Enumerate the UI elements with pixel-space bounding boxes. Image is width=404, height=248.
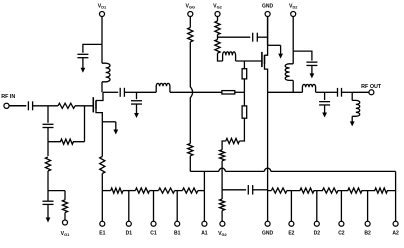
- label A2: [392, 231, 399, 237]
- resistor R19: [182, 188, 198, 193]
- wire (gate lead): [236, 60, 262, 62]
- wire: [217, 35, 219, 40]
- terminal VGG: [188, 12, 193, 17]
- resistor R3: [45, 157, 50, 171]
- wire: [316, 91, 325, 93]
- wire: [342, 91, 353, 93]
- wire (source to gnd arrow): [102, 121, 116, 123]
- svg-text:GND: GND: [262, 4, 274, 10]
- resistor R21: [291, 188, 316, 193]
- wire (C1 pad): [153, 191, 155, 222]
- terminal VD2: [291, 12, 296, 17]
- wire: [150, 190, 159, 192]
- terminal E1: [100, 221, 105, 226]
- terminal B2: [365, 221, 370, 226]
- capacitor C8 (VG2-GND top): [253, 33, 258, 42]
- wire: [235, 91, 245, 93]
- resistor R8 (box): [242, 106, 247, 118]
- capacitor C5 (interstage coupling): [103, 88, 124, 97]
- wire: [221, 161, 223, 190]
- wire: [218, 53, 223, 61]
- wire: [175, 190, 183, 192]
- wire: [325, 91, 338, 93]
- resistor R6 (box): [222, 91, 235, 94]
- wire: [47, 171, 49, 191]
- resistor R16: [111, 188, 123, 193]
- capacitor C6 (shunt): [131, 92, 142, 104]
- resistor R12: [188, 28, 193, 43]
- node input (x48): [47, 106, 49, 123]
- wire (B2 pad): [367, 191, 369, 222]
- wire (bias rail): [271, 170, 396, 172]
- terminal A2: [393, 221, 398, 226]
- label A1: [201, 231, 208, 237]
- wire: [101, 174, 103, 191]
- wire: [47, 142, 49, 156]
- wire: [83, 44, 102, 52]
- wire: [9, 105, 26, 107]
- label C1: [150, 231, 157, 237]
- wire (B1 pad): [176, 191, 178, 222]
- wire (E2 pad): [290, 191, 292, 222]
- resistor R5 (E1): [100, 157, 105, 174]
- terminal E2: [289, 221, 294, 226]
- wire (cap branch): [218, 36, 251, 38]
- wire: [267, 16, 269, 45]
- terminal RF OUT: [369, 90, 374, 95]
- svg-text:VD1: VD1: [98, 4, 107, 10]
- svg-text:E1: E1: [99, 231, 105, 237]
- svg-text:B1: B1: [174, 231, 181, 237]
- label GND top: [262, 4, 274, 10]
- svg-text:VGG: VGG: [186, 4, 196, 10]
- ground arrow (L6): [350, 116, 355, 126]
- transistor Q2 channel: [264, 55, 266, 64]
- svg-text:VG1: VG1: [61, 231, 70, 237]
- transistor Q1 gate bar: [92, 97, 94, 112]
- capacitor C10 (output shunt): [319, 92, 330, 105]
- ground arrow (C6): [134, 104, 139, 118]
- svg-text:VG2: VG2: [218, 231, 227, 237]
- wire: [170, 91, 222, 93]
- wire (cap bus): [222, 189, 246, 191]
- wire: [33, 105, 58, 107]
- label VD2: [289, 4, 298, 10]
- svg-text:C2: C2: [338, 231, 345, 237]
- wire (source down): [267, 92, 269, 190]
- terminal GND (pad): [265, 221, 270, 226]
- resistor R24: [368, 188, 396, 193]
- resistor R10: [220, 150, 225, 161]
- wire (C2 pad): [340, 191, 342, 222]
- wire (D2 pad): [316, 191, 318, 222]
- wire (A2 line): [395, 171, 397, 221]
- wire: [48, 190, 65, 192]
- resistor R23: [341, 188, 367, 193]
- ground arrow (C9): [310, 66, 315, 79]
- wire (bias rail): [190, 170, 219, 172]
- terminal D2: [314, 221, 319, 226]
- resistor R22: [317, 188, 342, 193]
- terminal GND (top): [265, 12, 270, 17]
- wire: [84, 106, 86, 142]
- wire: [47, 128, 49, 142]
- transistor Q1 channel: [95, 100, 97, 109]
- wire: [137, 91, 157, 93]
- terminal RF IN: [4, 103, 9, 108]
- wire: [198, 190, 205, 192]
- wire (bypass branch): [293, 51, 312, 61]
- capacitor C9 (VD2 bypass): [306, 62, 317, 65]
- inductor L5 (output): [302, 84, 315, 92]
- capacitor C1 (input coupling): [28, 101, 32, 110]
- terminal VG2 (top): [215, 12, 220, 17]
- resistor R14: [215, 21, 220, 35]
- wire: [253, 189, 268, 191]
- svg-text:A2: A2: [392, 231, 399, 237]
- wire (bias rail): [225, 170, 264, 172]
- label VD1: [98, 4, 107, 10]
- label B1: [174, 231, 181, 237]
- svg-text:VD2: VD2: [289, 4, 298, 10]
- wire: [268, 91, 303, 93]
- capacitor C11 (output coupling): [338, 88, 342, 97]
- label VGG: [186, 4, 196, 10]
- wire (drain to arrow): [268, 44, 281, 46]
- svg-text:E2: E2: [288, 231, 294, 237]
- resistor R2 (feedback RC): [48, 139, 85, 144]
- label VG2 pad: [218, 231, 227, 237]
- label RF OUT: [361, 84, 382, 90]
- capacitor C3 (VG1 bypass): [43, 191, 54, 205]
- terminal C2: [339, 221, 344, 226]
- label VG2 top: [213, 4, 222, 10]
- inductor L2 (interstage): [156, 83, 170, 92]
- ground arrow (C10): [322, 105, 327, 118]
- resistor R13: [188, 144, 193, 156]
- wire (GND pad): [267, 190, 269, 222]
- svg-text:B2: B2: [364, 231, 371, 237]
- inductor L1 (drain choke): [102, 44, 110, 92]
- wire: [189, 156, 191, 172]
- wire: [243, 79, 245, 106]
- label E1: [99, 231, 105, 237]
- wire: [101, 16, 103, 44]
- ground arrow (C4): [81, 58, 86, 73]
- resistor R9: [226, 138, 240, 143]
- wire hop (over GND line): [264, 168, 270, 171]
- label B2: [364, 231, 371, 237]
- terminal A1: [202, 221, 207, 226]
- resistor R15: [215, 40, 220, 54]
- wire: [124, 91, 136, 93]
- wire: [292, 16, 294, 51]
- resistor R1 (series input): [58, 103, 75, 108]
- svg-text:GND: GND: [262, 231, 274, 237]
- svg-text:D1: D1: [126, 231, 133, 237]
- wire: [257, 36, 267, 38]
- label D2: [314, 231, 321, 237]
- resistor R18: [159, 188, 175, 193]
- terminal D1: [126, 221, 131, 226]
- wire (E1 pad): [101, 191, 103, 222]
- wire (A1 line): [203, 171, 205, 221]
- wire (bus E1-D1): [102, 190, 110, 192]
- wire (source down to E1 resistor): [101, 122, 103, 157]
- wire: [217, 16, 219, 21]
- wire: [287, 190, 292, 192]
- label D1: [126, 231, 133, 237]
- resistor R11 (VG2 feed): [220, 199, 225, 221]
- label GND pad: [262, 231, 274, 237]
- terminal VG1: [63, 220, 68, 225]
- transistor Q1 drain lead: [96, 92, 103, 100]
- wire (VGG line with hop): [190, 42, 192, 144]
- capacitor C7 (VG2-GND): [248, 185, 252, 195]
- resistor R7 (box): [242, 69, 247, 79]
- svg-text:C1: C1: [150, 231, 157, 237]
- svg-text:RF OUT: RF OUT: [361, 84, 382, 90]
- wire: [222, 141, 226, 150]
- wire: [352, 91, 369, 93]
- terminal C1: [151, 221, 156, 226]
- terminal B1: [175, 221, 180, 226]
- label C2: [338, 231, 345, 237]
- resistor R4 (VG1 feed): [62, 191, 67, 221]
- svg-text:RF IN: RF IN: [1, 94, 15, 100]
- wire: [243, 61, 245, 69]
- wire (bus GND-E2): [268, 190, 272, 192]
- wire: [189, 16, 191, 27]
- ground arrow (C3): [46, 204, 51, 222]
- label RF IN: [1, 94, 15, 100]
- transistor Q1 source lead: [96, 109, 102, 122]
- label E2: [288, 231, 294, 237]
- wire: [75, 105, 93, 107]
- transistor Q2 gate bar: [261, 52, 263, 67]
- resistor R17: [135, 188, 149, 193]
- inductor L6 (shunt): [352, 92, 360, 116]
- svg-text:VG2: VG2: [213, 4, 222, 10]
- resistor R20: [271, 188, 287, 193]
- capacitor C2 (shunt RC): [43, 124, 54, 127]
- svg-text:A1: A1: [201, 231, 208, 237]
- wire: [123, 190, 135, 192]
- wire (D1 pad): [128, 191, 130, 222]
- inductor L3 (gate): [223, 52, 236, 61]
- svg-text:D2: D2: [314, 231, 321, 237]
- label VG1: [61, 231, 70, 237]
- inductor L4 (output choke): [285, 51, 293, 92]
- terminal VD1: [100, 12, 105, 17]
- ground arrow (Q1 source): [113, 122, 118, 135]
- terminal VG2 (pad): [220, 221, 225, 226]
- capacitor C4 (VD1 bypass): [77, 54, 88, 57]
- ground arrow (Q2 drain): [278, 45, 283, 58]
- wire: [239, 118, 244, 141]
- node VG2 pad line: [221, 190, 223, 199]
- transistor Q2 source lead: [265, 64, 268, 93]
- wire hop (over VG2 pad line): [219, 168, 225, 171]
- transistor Q2 drain lead: [265, 45, 268, 55]
